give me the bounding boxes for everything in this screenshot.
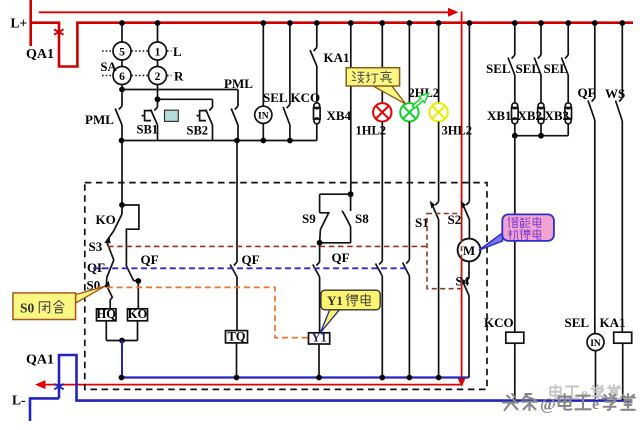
svg-text:KA1: KA1: [600, 315, 626, 330]
svg-text:3HL2: 3HL2: [442, 124, 473, 138]
wire S2 to motor: [468, 220, 470, 239]
wire SEL coil to L-: [595, 351, 597, 401]
svg-text:S0: S0: [20, 301, 35, 316]
wire 1HL2 to return: [381, 276, 383, 378]
callout 'S0 closed': [76, 286, 105, 303]
lamp 2HL2: [400, 103, 418, 121]
svg-text:SB2: SB2: [187, 124, 209, 138]
svg-text:Y1: Y1: [311, 330, 326, 344]
wire KO coil bottom: [137, 321, 139, 341]
wire bus to WS: [621, 23, 623, 98]
svg-text:SB1: SB1: [137, 123, 159, 137]
svg-text:QA1: QA1: [26, 353, 54, 368]
brown dashed enclosure (S1/S2 box): [427, 214, 462, 289]
wire SEL to collector: [289, 125, 291, 141]
power rail L+ lead: [29, 0, 32, 46]
svg-text:Y1: Y1: [327, 293, 343, 308]
wire KA1 coil to L-: [622, 343, 624, 400]
wire bus to SEL1: [514, 23, 516, 55]
contact S9: [320, 213, 329, 230]
svg-text:L: L: [173, 44, 182, 59]
wire bus to SA-1: [157, 23, 159, 42]
svg-text:M: M: [463, 243, 475, 258]
wire 3HL2 down: [438, 122, 440, 202]
svg-text:L+: L+: [11, 16, 28, 31]
current-flow vertical (right): [461, 12, 463, 379]
svg-text:5: 5: [119, 46, 125, 58]
svg-text:S9: S9: [302, 211, 316, 226]
svg-text:@: @: [540, 395, 556, 414]
SA dotted linkage row1: [102, 50, 172, 52]
node XB1 join: [512, 133, 518, 139]
node S9-S8 bottom: [317, 240, 323, 246]
node KO branch: [135, 278, 141, 284]
XB join bar: [515, 135, 568, 137]
svg-text:QA1: QA1: [26, 47, 54, 62]
contact S2: [466, 202, 469, 206]
plug XB3: [565, 103, 571, 109]
breaker QA1 bottom (blue, with step): [59, 355, 631, 401]
wire SEL2 to XB2: [540, 75, 542, 103]
svg-text:6: 6: [119, 71, 125, 83]
SA dotted linkage row2: [102, 75, 172, 77]
wire XB2 down: [540, 124, 542, 136]
svg-text:L-: L-: [12, 393, 26, 408]
wire bus to QF: [594, 23, 596, 98]
current-flow arrow line (top): [39, 11, 449, 13]
svg-text:QF: QF: [578, 85, 596, 100]
contact SEL (#1): [512, 55, 515, 59]
svg-text:XB2: XB2: [518, 108, 543, 123]
wire XB3 down: [567, 124, 569, 136]
wire PML-left bottom: [121, 125, 123, 141]
wire TQ branch down: [236, 141, 238, 263]
node S9-S8 top: [348, 191, 354, 197]
svg-text:WS: WS: [605, 86, 625, 101]
svg-text:IN: IN: [258, 112, 269, 122]
contact on 1HL2 column: [379, 261, 382, 265]
node chain top: [119, 202, 125, 208]
node under SA-2: [155, 96, 161, 102]
wire join to return (blue): [121, 341, 123, 378]
wire XB4 to collector: [316, 124, 318, 141]
lamp 3HL2: [429, 103, 447, 121]
wire motor to S4: [468, 261, 470, 278]
wire SA-2 to node: [157, 85, 159, 100]
breaker QA1 bottom star marker: [54, 381, 64, 392]
callout 'charging motor energized': [479, 233, 503, 250]
contact S1: [435, 202, 438, 206]
wire bus to KA1 contact: [316, 23, 318, 48]
svg-text:XB3: XB3: [545, 108, 570, 123]
contact KO (chain): [114, 214, 122, 231]
svg-text:KO: KO: [128, 307, 148, 321]
wire SEL3 to XB3: [567, 75, 569, 103]
svg-text:SEL: SEL: [263, 90, 288, 105]
contact SEL mid: [287, 105, 290, 109]
indicator IN (SEL coil): [587, 334, 604, 351]
blue dashed QF line: [93, 267, 407, 269]
wire IN to collector: [262, 123, 264, 140]
svg-text:QF: QF: [332, 250, 350, 265]
indicator window (teal rect): [165, 110, 179, 121]
wire SB1 bottom: [157, 125, 159, 141]
wire QF to TQ coil: [236, 277, 238, 331]
node PML-left bottom: [119, 138, 125, 144]
coil KA1: [614, 332, 632, 343]
wire node to PML-right: [122, 89, 238, 91]
plug XB2: [538, 103, 544, 109]
svg-text:QF: QF: [141, 252, 159, 267]
contact PML left: [121, 90, 123, 107]
node TQ branch top: [234, 138, 240, 144]
orange dashed S0 line: [97, 287, 309, 337]
node XB2 join: [538, 133, 544, 139]
wire KA1 to XB4: [316, 66, 318, 103]
contact S8: [350, 194, 352, 211]
contact KA1: [314, 48, 317, 52]
watermark light copy: [550, 385, 561, 399]
svg-text:QF: QF: [242, 252, 260, 267]
wire node to SB2: [158, 98, 213, 100]
current-flow return line (bottom): [44, 384, 461, 386]
wire QF to SEL coil: [594, 120, 596, 334]
contact S4: [466, 278, 469, 282]
wire WS to KA1 coil: [621, 121, 623, 332]
dashed enclosure (mechanism box): [85, 183, 487, 390]
SA contact 1: [149, 42, 167, 60]
svg-text:KA1: KA1: [324, 50, 350, 65]
contact QF (Y1 branch): [316, 262, 319, 266]
wire PML-left into box: [121, 141, 123, 206]
coil HQ: [97, 309, 117, 321]
wire bus to IN lamp: [262, 23, 264, 106]
contact on 2HL2 column: [406, 260, 409, 264]
wire SA-6 to node: [121, 85, 123, 90]
svg-text:S8: S8: [355, 211, 369, 226]
wire bus to SEL2: [540, 23, 542, 55]
wire bus to 1HL2: [381, 23, 383, 103]
wire 1HL2 down: [381, 122, 383, 262]
power rail L- lead: [30, 398, 59, 421]
wire 2HL2 down: [408, 122, 410, 261]
contact SEL (#3): [565, 55, 568, 59]
callout 'green lamp on': [373, 86, 406, 104]
svg-text:XB4: XB4: [327, 108, 352, 123]
svg-text:HQ: HQ: [97, 307, 117, 321]
breaker QA1 (red, with dip): [30, 23, 634, 67]
coil KCO: [506, 332, 524, 343]
svg-text:KO: KO: [96, 212, 116, 227]
svg-text:PML: PML: [224, 76, 253, 91]
svg-text:SA: SA: [101, 60, 117, 74]
svg-text:IN: IN: [590, 339, 601, 349]
wire bus to 2HL2: [408, 23, 410, 103]
wire chain top: [121, 205, 123, 214]
watermark main: [503, 394, 518, 410]
wire XB1 down: [514, 124, 516, 136]
plug XB4: [314, 103, 320, 109]
wire bus to SEL contact: [289, 23, 291, 105]
svg-text:SEL: SEL: [486, 61, 511, 76]
wire bus to S2: [468, 23, 470, 202]
svg-text:S4: S4: [456, 274, 470, 289]
coil KO: [128, 309, 148, 321]
contact S0: [105, 278, 107, 286]
svg-text:S3: S3: [89, 239, 103, 254]
svg-text:PML: PML: [85, 112, 114, 127]
contact SB1 pushbutton: [157, 99, 159, 107]
wire S9 branch top: [320, 193, 351, 195]
contact QF (right): [592, 98, 595, 102]
contact QF (chain): [107, 260, 114, 278]
wire S1 to return: [438, 220, 440, 378]
contact PML right: [235, 106, 238, 110]
SA contact 2: [149, 67, 167, 85]
svg-text:2: 2: [155, 71, 161, 83]
contact QF (TQ branch): [234, 262, 237, 266]
svg-text:R: R: [174, 69, 184, 84]
svg-text:TQ: TQ: [227, 329, 245, 343]
wire Y1 to return: [318, 344, 320, 378]
brown dashed S3 line: [108, 245, 427, 247]
wire HQ-KO join: [106, 340, 137, 342]
contact SEL (#2): [538, 55, 541, 59]
node under SA-6: [119, 87, 125, 93]
svg-text:SEL: SEL: [565, 315, 590, 330]
wire to KCO coil: [514, 136, 516, 333]
current-flow down arrow: [458, 378, 466, 387]
motor M (charging): [458, 239, 481, 262]
green annotation arrow: [412, 93, 428, 108]
SA contact 6: [113, 67, 131, 85]
callout 'Y1 energized': [321, 309, 341, 333]
wire bus to S9-S8 node: [350, 23, 352, 194]
wire 2HL2 to return: [408, 276, 410, 378]
collector wire y=140: [122, 140, 317, 142]
coil Y1: [309, 333, 330, 344]
svg-text:e: e: [592, 396, 599, 413]
wire S8 bottom join: [320, 242, 351, 244]
svg-text:SEL: SEL: [516, 61, 541, 76]
wire SB2 bottom: [212, 125, 214, 141]
wire bus to SEL3: [567, 23, 569, 55]
wire HQ coil bottom: [105, 321, 107, 341]
contact WS: [619, 98, 622, 102]
plug XB1: [512, 103, 518, 109]
wire to QF (Y1 branch): [319, 243, 321, 262]
SA contact 5: [113, 42, 131, 60]
node HQ-KO join: [119, 338, 125, 344]
wire bus to 3HL2: [438, 23, 440, 103]
lamp 1HL2: [373, 103, 391, 121]
wire PML-right bottom: [237, 125, 239, 141]
wire S4 to return: [468, 296, 470, 378]
contact QF (KO branch): [126, 266, 138, 281]
wire TQ to return: [236, 343, 238, 378]
indicator IN (SEL): [255, 106, 272, 123]
wire to KO coil: [137, 281, 139, 309]
wire bus to SA-5: [121, 23, 123, 42]
contact SB2 pushbutton: [209, 107, 212, 111]
wire QF to Y1 coil: [319, 277, 321, 333]
svg-text:SEL: SEL: [544, 61, 569, 76]
svg-text:1: 1: [155, 46, 161, 58]
coil TQ: [226, 331, 248, 343]
wire KCO to L-: [514, 343, 516, 400]
in-box return bus (blue): [122, 376, 469, 378]
breaker QA1 star marker: [54, 27, 64, 38]
contact S3: [107, 231, 114, 241]
svg-text:KCO: KCO: [484, 315, 514, 330]
branch wire to KO coil: [122, 205, 139, 266]
svg-text:XB1: XB1: [487, 108, 512, 123]
wire SEL1 to XB1: [514, 75, 516, 103]
